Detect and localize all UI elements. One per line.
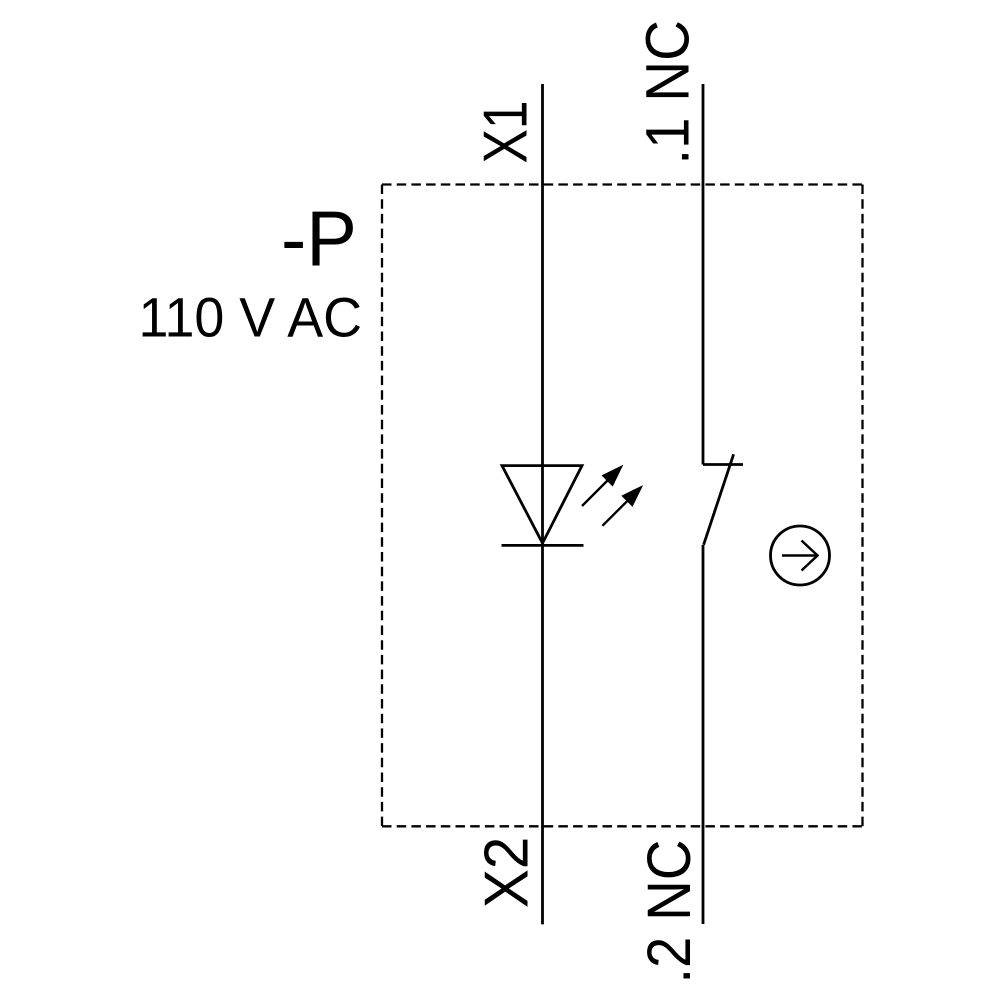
svg-text:X2: X2 [472, 837, 542, 909]
svg-text:X1: X1 [471, 100, 541, 163]
svg-text:110 V AC: 110 V AC [139, 287, 363, 349]
svg-text:.2 NC: .2 NC [635, 840, 703, 984]
svg-text:.1 NC: .1 NC [634, 20, 702, 165]
svg-text:-P: -P [281, 197, 357, 283]
